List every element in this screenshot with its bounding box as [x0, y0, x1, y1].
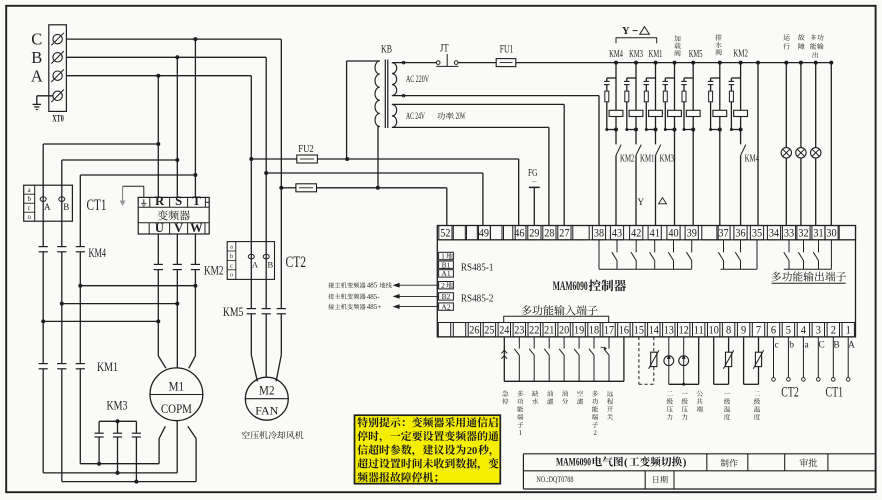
svg-text:B: B: [63, 202, 69, 212]
svg-text:CT1: CT1: [826, 385, 844, 401]
svg-text:4: 4: [801, 325, 806, 337]
svg-text:V: V: [174, 221, 183, 235]
svg-text:a: a: [804, 341, 809, 351]
svg-text:35: 35: [752, 228, 762, 240]
svg-text:31: 31: [813, 228, 823, 240]
svg-text:): ): [683, 457, 687, 469]
svg-text:14: 14: [649, 325, 659, 337]
svg-text:: 20W: : 20W: [453, 111, 466, 121]
svg-text:41: 41: [650, 228, 660, 240]
svg-text:10: 10: [709, 325, 719, 337]
svg-text:32: 32: [798, 228, 808, 240]
svg-text:RS485-2: RS485-2: [461, 293, 494, 305]
svg-text:NO.:DQT0788: NO.:DQT0788: [536, 475, 573, 484]
svg-text:FU2: FU2: [298, 143, 314, 155]
svg-text:KM4: KM4: [745, 154, 760, 165]
svg-text:CT2: CT2: [781, 385, 799, 401]
svg-text:15: 15: [634, 325, 644, 337]
svg-text:KM1: KM1: [649, 49, 663, 60]
svg-text:KM3: KM3: [660, 154, 675, 165]
svg-text:A2: A2: [441, 302, 450, 311]
svg-text:21: 21: [544, 325, 554, 337]
svg-text:11: 11: [694, 325, 704, 337]
svg-text:AC 220V: AC 220V: [406, 74, 429, 84]
svg-text:c: c: [230, 262, 233, 269]
svg-text:S: S: [175, 194, 182, 208]
svg-text:23: 23: [514, 325, 524, 337]
svg-text:c: c: [28, 205, 31, 212]
svg-text:R: R: [155, 194, 165, 208]
svg-text:MAM6090: MAM6090: [553, 279, 588, 293]
svg-text:FU1: FU1: [500, 44, 514, 56]
svg-text:AC 24V: AC 24V: [406, 111, 425, 121]
svg-text:KM4: KM4: [609, 49, 623, 60]
svg-text:42: 42: [631, 228, 641, 240]
svg-text:49: 49: [479, 228, 489, 240]
svg-text:XT0: XT0: [52, 115, 64, 125]
svg-text:16: 16: [619, 325, 629, 337]
svg-text:o: o: [27, 214, 31, 221]
svg-text:37: 37: [718, 228, 728, 240]
svg-text:7: 7: [756, 325, 761, 337]
svg-text:B2: B2: [442, 292, 451, 301]
svg-text:(: (: [624, 457, 628, 469]
svg-text:8: 8: [726, 325, 731, 337]
svg-text:Y: Y: [637, 198, 644, 208]
svg-text:24: 24: [499, 325, 509, 337]
svg-text:B: B: [31, 48, 42, 67]
svg-text:B: B: [267, 260, 273, 270]
svg-text:KM5: KM5: [223, 304, 244, 319]
svg-text:KM1: KM1: [640, 154, 655, 165]
svg-text:2: 2: [831, 325, 836, 337]
svg-text:RS485-1: RS485-1: [461, 261, 494, 273]
svg-text:KM3: KM3: [107, 398, 128, 413]
svg-text:KB: KB: [381, 44, 392, 56]
svg-text:46: 46: [514, 228, 524, 240]
svg-text:22: 22: [529, 325, 539, 337]
svg-text:19: 19: [574, 325, 584, 337]
svg-text:40: 40: [668, 228, 678, 240]
svg-text:5: 5: [786, 325, 791, 337]
svg-text:COPM: COPM: [161, 401, 192, 416]
svg-text:3: 3: [816, 325, 821, 337]
svg-text:43: 43: [612, 228, 622, 240]
svg-text:CT1: CT1: [87, 197, 107, 214]
svg-text:A: A: [44, 202, 51, 212]
svg-text:a: a: [230, 244, 233, 251]
svg-text:b: b: [27, 196, 31, 203]
svg-text:FAN: FAN: [255, 404, 278, 418]
svg-text:33: 33: [784, 228, 794, 240]
svg-text:A: A: [848, 341, 855, 351]
svg-text:Y: Y: [622, 26, 630, 37]
svg-text:W: W: [190, 221, 203, 235]
svg-text:52: 52: [440, 228, 450, 240]
svg-text:C: C: [31, 30, 42, 49]
svg-text:20: 20: [559, 325, 569, 337]
svg-text:485-: 485-: [367, 293, 381, 301]
svg-text:M2: M2: [259, 384, 275, 398]
svg-text:38: 38: [594, 228, 604, 240]
svg-text:29: 29: [529, 228, 539, 240]
svg-text:A: A: [31, 66, 43, 85]
svg-text:20: 20: [467, 446, 478, 457]
svg-text:39: 39: [687, 228, 697, 240]
svg-text:485: 485: [367, 282, 378, 290]
svg-text:13: 13: [664, 325, 674, 337]
svg-text:30: 30: [826, 228, 836, 240]
svg-text:1: 1: [846, 325, 851, 337]
svg-text:CT2: CT2: [286, 254, 307, 271]
svg-text:KM4: KM4: [89, 245, 107, 260]
svg-text:T: T: [192, 194, 201, 208]
svg-text:28: 28: [544, 228, 554, 240]
svg-text:A: A: [252, 260, 259, 270]
svg-text:2: 2: [441, 281, 445, 290]
svg-text:FG: FG: [528, 167, 538, 179]
svg-text:b: b: [789, 341, 794, 351]
svg-text:JT: JT: [440, 43, 449, 55]
svg-text:KM3: KM3: [629, 49, 643, 60]
svg-text:34: 34: [769, 228, 779, 240]
svg-text:27: 27: [559, 228, 569, 240]
svg-text:MAM6090: MAM6090: [556, 457, 591, 469]
svg-text:KM2: KM2: [204, 263, 224, 278]
svg-text:KM2: KM2: [733, 48, 748, 59]
svg-text:KM5: KM5: [689, 49, 703, 60]
svg-text:o: o: [230, 272, 233, 279]
svg-text:1: 1: [441, 252, 445, 261]
svg-text:6: 6: [771, 325, 776, 337]
svg-text:9: 9: [741, 325, 746, 337]
svg-text:C: C: [818, 341, 824, 351]
svg-text:M1: M1: [169, 378, 185, 393]
svg-text:12: 12: [679, 325, 689, 337]
svg-text:a: a: [28, 187, 31, 194]
svg-text:36: 36: [735, 228, 745, 240]
svg-text:25: 25: [484, 325, 494, 337]
svg-text:b: b: [230, 253, 233, 260]
svg-text:B1: B1: [442, 260, 451, 269]
svg-text:A1: A1: [441, 269, 450, 278]
svg-text:18: 18: [589, 325, 599, 337]
svg-text:17: 17: [604, 325, 614, 337]
svg-text:485+: 485+: [367, 303, 382, 311]
svg-text:B: B: [833, 341, 839, 351]
svg-text:26: 26: [469, 325, 479, 337]
svg-text:KM2: KM2: [620, 154, 635, 165]
svg-text:KM1: KM1: [97, 359, 118, 374]
svg-text:U: U: [155, 221, 164, 235]
svg-text:c: c: [775, 341, 779, 351]
